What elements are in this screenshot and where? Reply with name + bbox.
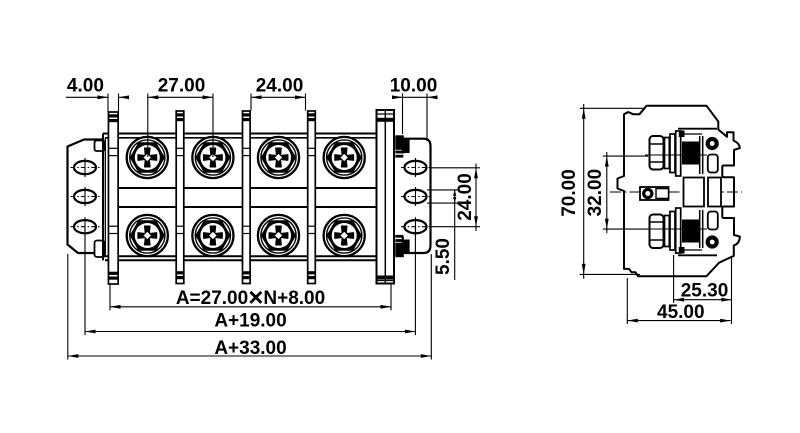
svg-text:25.30: 25.30 [681, 281, 729, 302]
svg-text:4.00: 4.00 [67, 76, 104, 97]
svg-text:24.00: 24.00 [455, 173, 476, 221]
svg-text:45.00: 45.00 [657, 302, 705, 323]
svg-text:A+19.00: A+19.00 [214, 311, 286, 332]
svg-text:10.00: 10.00 [390, 76, 438, 97]
svg-text:70.00: 70.00 [559, 169, 580, 217]
svg-text:32.00: 32.00 [585, 169, 606, 217]
svg-text:A+33.00: A+33.00 [214, 338, 286, 359]
svg-text:27.00: 27.00 [158, 76, 206, 97]
svg-text:24.00: 24.00 [256, 76, 304, 97]
svg-text:5.50: 5.50 [433, 238, 454, 275]
